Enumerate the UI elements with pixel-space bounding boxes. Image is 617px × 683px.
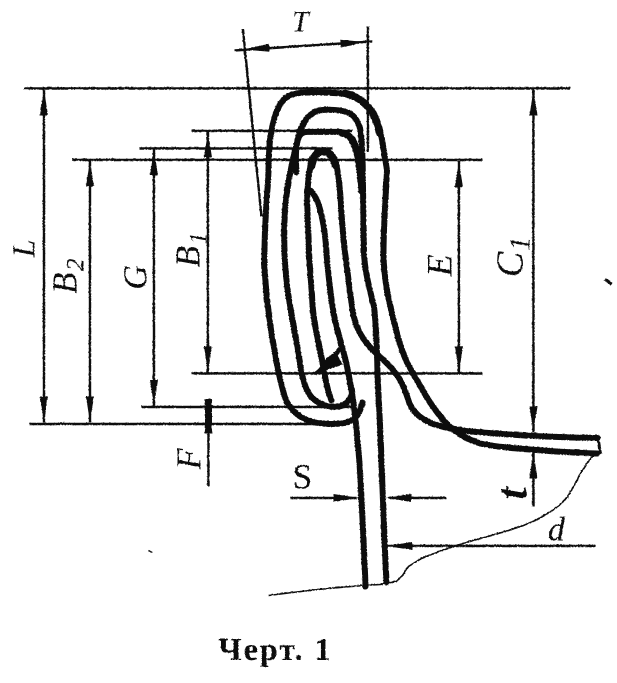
clip outer top bend right corner thickening xyxy=(345,93,380,133)
dimension line E xyxy=(457,161,459,372)
svg-text:B2: B2 xyxy=(45,257,89,294)
arrowhead E top xyxy=(455,161,463,187)
clip third top bend flat arc xyxy=(295,131,361,191)
svg-text:C1: C1 xyxy=(489,235,536,276)
clip inner arch apex thickening xyxy=(311,151,336,166)
dimension line B1 xyxy=(206,131,208,372)
freehand break line xyxy=(268,452,597,595)
dimension line B2 xyxy=(88,160,90,422)
arrowhead S right xyxy=(385,494,411,502)
svg-text:d: d xyxy=(548,511,566,548)
arrowhead T left xyxy=(243,43,269,51)
scan speck bottom left xyxy=(148,550,152,552)
extension line G bottom / F top xyxy=(141,405,351,407)
svg-text:G: G xyxy=(117,265,154,290)
arrowhead B1 top xyxy=(204,131,212,157)
arrowhead T right xyxy=(340,39,366,47)
extension line B1 bottom / E bottom xyxy=(191,372,482,374)
extension line B1 top xyxy=(191,129,352,131)
extension line T right xyxy=(366,26,368,152)
dimension line L xyxy=(42,89,44,422)
clip tail end cap xyxy=(598,437,601,453)
clip inner arch loop: left limb, round inner top arch, right limb, tail top edge xyxy=(307,151,597,438)
svg-text:E: E xyxy=(419,254,459,277)
svg-text:B1: B1 xyxy=(168,230,212,267)
leader line d xyxy=(386,544,595,546)
clip third top bend right corner thickening xyxy=(341,133,358,162)
scan speck right xyxy=(605,279,611,285)
dimension line S right segment xyxy=(388,496,446,498)
clip outer strip: bottom bend, left limb, outer top bend, right limb, tail bottom edge xyxy=(264,92,597,453)
svg-text:L: L xyxy=(5,239,41,258)
arrowhead L top xyxy=(40,89,48,115)
dimension line G xyxy=(152,149,154,406)
extension line top (L top, C1 top) xyxy=(24,87,570,89)
svg-text:T: T xyxy=(292,5,311,38)
arrowhead B1 bottom xyxy=(204,346,212,372)
svg-text:Черт. 1: Черт. 1 xyxy=(218,631,332,667)
dimension line T xyxy=(234,41,372,50)
clip inner strip surface merging into straight leg left edge xyxy=(308,189,365,586)
extension line G top xyxy=(139,147,332,149)
dimension line S left segment xyxy=(290,496,356,498)
arrowhead t up xyxy=(529,452,537,478)
clip second strip surface: inner bottom bend, left limb, second top bend, leg right edge xyxy=(284,109,386,582)
clip angled cut filled wedge xyxy=(315,352,342,373)
arrowhead G top xyxy=(150,149,158,175)
arrowhead B2 top xyxy=(86,160,94,186)
svg-text:F: F xyxy=(169,447,208,470)
extension line T left (slanted) xyxy=(243,29,262,216)
extension line L bottom / B2 bottom / F bottom xyxy=(29,422,341,424)
arrowhead B2 bottom xyxy=(86,396,94,422)
arrowhead C1 bottom xyxy=(529,406,537,432)
dimension line F xyxy=(207,407,209,486)
arrowhead F blob fill xyxy=(205,403,212,429)
arrowhead G bottom xyxy=(150,380,158,406)
extension line B2 top / E top xyxy=(72,158,482,160)
clip angled cut line of inner strip end xyxy=(317,348,341,373)
arrowhead L bottom xyxy=(40,396,48,422)
svg-text:t: t xyxy=(487,485,536,499)
svg-text:S: S xyxy=(292,457,311,496)
arrowhead d leader xyxy=(386,542,412,550)
dimension line C1 xyxy=(532,89,534,432)
arrowhead F up xyxy=(204,407,212,433)
arrowhead E bottom xyxy=(455,346,463,372)
arrowhead C1 top xyxy=(529,89,537,115)
dimension line t xyxy=(532,452,534,506)
arrowhead F down xyxy=(204,399,212,425)
arrowhead S left xyxy=(333,494,359,502)
